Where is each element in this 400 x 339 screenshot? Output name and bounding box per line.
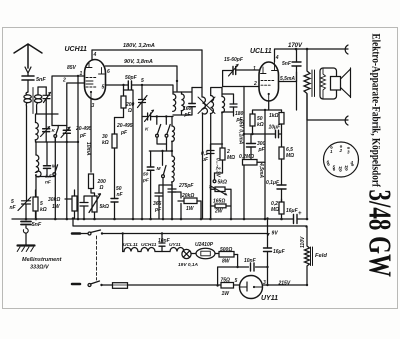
switch pole 2 [88, 284, 91, 287]
resistor 30kOhm 1W [72, 196, 77, 211]
svg-text:2W: 2W [214, 209, 224, 215]
band feed shelf [52, 125, 67, 127]
svg-text:75Ω: 75Ω [221, 278, 231, 284]
UCH11 pin labels [62, 52, 110, 109]
cap 5nF to ground [21, 222, 31, 225]
svg-text:10nF: 10nF [244, 258, 257, 264]
svg-text:pF: pF [142, 178, 150, 184]
UCH11 electrodes [86, 63, 105, 88]
svg-text:U2410P: U2410P [195, 242, 214, 248]
resistor 500 Ohm 8W [215, 253, 219, 255]
cap 365pF [155, 193, 163, 196]
svg-text:nF: nF [10, 205, 17, 211]
trimmer 5nF bottom-left [18, 197, 31, 211]
svg-text:16μF: 16μF [273, 249, 286, 255]
wire y114 [37, 113, 58, 115]
svg-text:Ω: Ω [99, 185, 104, 191]
svg-text:5kΩ: 5kΩ [100, 204, 110, 210]
svg-text:1: 1 [253, 66, 256, 72]
svg-text:50: 50 [143, 172, 149, 178]
svg-text:0,1μF: 0,1μF [266, 180, 280, 186]
cap 300pF [247, 144, 256, 148]
svg-text:1,5: 1,5 [45, 174, 52, 180]
svg-text:5: 5 [333, 165, 336, 170]
wire vertical right of UY11 [267, 219, 269, 286]
second row: wire y151 [149, 150, 172, 152]
svg-text:MΩ: MΩ [286, 153, 294, 159]
svg-text:50pF: 50pF [125, 75, 138, 81]
antenna [14, 44, 42, 68]
resistor 0.5MOhm [279, 147, 284, 159]
tube socket pinout [324, 142, 359, 177]
cap 10uF in horizontal wire [276, 130, 279, 138]
speaker cone [341, 68, 351, 98]
trimmer 15-60pF [233, 67, 236, 75]
svg-text:90V, 3,8mA: 90V, 3,8mA [124, 59, 153, 65]
svg-text:kΩ: kΩ [40, 207, 47, 213]
svg-text:Feld: Feld [315, 253, 327, 259]
capacitor 5nF antenna [22, 76, 34, 80]
cap 10nF heater [159, 243, 165, 246]
barretter U2410P [191, 253, 196, 255]
speaker terminal arc bottom [345, 116, 348, 125]
UCL11 pin labels [253, 55, 279, 87]
resistor 0.2MOhm right [279, 202, 284, 214]
variable cap C2b [63, 130, 70, 133]
cap 16uF lower [264, 248, 272, 252]
cap 180pF [230, 104, 237, 107]
output transformer primary [304, 49, 310, 120]
field coil Feld [305, 227, 310, 285]
svg-text:0,2MΩ: 0,2MΩ [239, 154, 254, 160]
mains plug pole 2 [72, 283, 80, 286]
svg-text:Elektro-Apparate-Fabrik, Köppe: Elektro-Apparate-Fabrik, Köppelsdorf [369, 34, 381, 188]
svg-text:8W: 8W [222, 259, 231, 265]
svg-text:pF: pF [120, 130, 128, 136]
switch gang link dashed [96, 236, 98, 280]
UCL11 pin wires [236, 49, 274, 110]
top line 180V [92, 49, 202, 51]
title text vertical [361, 34, 397, 278]
resistor 75 Ohm 1W [221, 283, 234, 289]
svg-text:kΩ: kΩ [257, 122, 264, 128]
main bus [12, 218, 307, 220]
svg-text:K: K [52, 128, 56, 134]
svg-text:333Ω/V: 333Ω/V [30, 265, 50, 271]
svg-text:MΩ: MΩ [227, 155, 235, 161]
svg-text:5nF: 5nF [32, 222, 42, 228]
bus junction dots [25, 218, 309, 221]
svg-text:20-495: 20-495 [116, 123, 133, 129]
svg-text:UY11: UY11 [169, 242, 181, 248]
cap 10nF lower [251, 263, 255, 271]
variable cap C2a [43, 129, 50, 132]
line 90V [106, 66, 178, 91]
svg-text:5: 5 [102, 85, 105, 91]
svg-text:+: + [298, 211, 302, 217]
svg-text:10μF: 10μF [269, 125, 282, 131]
tube UCL11 [259, 62, 279, 101]
svg-text:μF: μF [201, 157, 209, 163]
svg-text:5: 5 [235, 278, 238, 284]
svg-text:4,5mA: 4,5mA [258, 162, 264, 178]
trimmer C ant [43, 93, 51, 103]
svg-text:2: 2 [62, 78, 66, 84]
svg-text:4: 4 [350, 160, 354, 165]
switch K3 [165, 117, 167, 125]
svg-text:5nF: 5nF [282, 61, 292, 67]
speaker bottom wire [307, 119, 348, 121]
svg-text:1kΩ: 1kΩ [269, 113, 279, 119]
svg-text:85V: 85V [67, 65, 77, 71]
svg-text:30kΩ: 30kΩ [48, 197, 60, 203]
osc coil L6 [171, 156, 174, 182]
svg-text:10mA: 10mA [85, 142, 91, 156]
svg-text:UCL11: UCL11 [123, 242, 138, 248]
wire 4.5mA [264, 110, 266, 219]
oscillator shelf with variable cap [142, 116, 173, 118]
transformer core line [32, 88, 34, 114]
wire detector [221, 112, 223, 148]
resistor 165 Ohm 2W [215, 204, 226, 208]
dial lamp [182, 249, 191, 258]
wire antenna to coil [27, 73, 29, 92]
svg-text:10nF: 10nF [158, 238, 171, 244]
wire y144 [157, 137, 167, 151]
svg-text:Ω: Ω [127, 108, 132, 114]
UCH11 pin wires [52, 50, 128, 219]
IF transformer 1 winding B [181, 94, 184, 111]
svg-text:UCH11: UCH11 [65, 46, 88, 53]
IF transformer 2 winding B [210, 96, 213, 114]
resistor 50kOhm [250, 114, 255, 126]
-9V line from bus [73, 219, 307, 227]
pot 5kOhm [215, 187, 225, 192]
mains plug pole 1 [72, 232, 80, 235]
svg-text:0...-2,3V: 0...-2,3V [215, 158, 221, 178]
ground [18, 244, 35, 246]
potentiometer 5kOhm [92, 196, 97, 212]
svg-text:165Ω: 165Ω [213, 199, 225, 205]
svg-text:20kΩ: 20kΩ [181, 193, 194, 199]
resistor 30kOhm mid [112, 134, 117, 148]
speaker coil secondary [321, 68, 326, 99]
antenna coil L1 [26, 92, 28, 95]
cap 50pF lower [150, 151, 152, 219]
svg-text:nF: nF [117, 192, 124, 198]
svg-text:pF: pF [258, 147, 266, 153]
svg-text:UY11: UY11 [261, 295, 278, 302]
wire band row [36, 141, 79, 143]
svg-text:16μF: 16μF [286, 208, 299, 214]
resistor 1kOhm [279, 113, 284, 125]
speaker driver [331, 77, 341, 91]
resistor 200 Ohm [121, 96, 126, 108]
switch M1 with cap [44, 166, 51, 169]
heater feed line [102, 233, 268, 235]
wires left cluster verticals [55, 76, 78, 219]
mid cluster: trimmer on x142 [138, 96, 148, 108]
switch M2 [162, 151, 164, 165]
tube UY11 [240, 276, 263, 299]
IF transformer 2 winding A [202, 97, 207, 114]
svg-text:1W: 1W [52, 204, 61, 210]
svg-text:5,5mA: 5,5mA [280, 76, 295, 82]
resistor 200 Ohm cathode [89, 174, 94, 189]
svg-text:110V: 110V [300, 236, 306, 248]
svg-text:5: 5 [141, 78, 144, 84]
switch pole 1 [80, 233, 88, 235]
IF2 secondary coil [222, 97, 225, 113]
svg-text:215V: 215V [278, 281, 291, 287]
svg-text:3: 3 [347, 150, 350, 155]
svg-text:Meßinstrument: Meßinstrument [22, 257, 63, 263]
speaker terminal arc top [345, 45, 348, 54]
fuse [102, 284, 112, 286]
svg-text:4: 4 [93, 52, 97, 58]
svg-text:pF: pF [79, 133, 87, 139]
cap 0.1uF right [277, 185, 286, 189]
svg-text:UCL11: UCL11 [250, 48, 272, 55]
left rail [26, 106, 28, 201]
antenna coil L2 [37, 87, 39, 95]
svg-text:1W: 1W [222, 291, 231, 297]
resistor 20kOhm 1W [184, 198, 197, 204]
switch K2 [156, 117, 158, 125]
svg-text:6: 6 [107, 69, 110, 75]
svg-text:MΩ: MΩ [271, 207, 279, 213]
svg-text:5nF: 5nF [36, 77, 46, 83]
volume pot wiper wire [215, 173, 223, 180]
svg-text:500Ω: 500Ω [220, 247, 232, 253]
svg-text:275pF: 275pF [178, 183, 194, 189]
wire chain down to 10nF [218, 255, 268, 286]
band row 2 bottom wire [36, 177, 55, 220]
coil L4 [36, 155, 41, 177]
cap 50pF [128, 81, 131, 90]
tube UCH11 [85, 60, 106, 100]
215V wire [263, 284, 308, 286]
170V line [275, 48, 348, 50]
svg-text:3/48 GW: 3/48 GW [361, 190, 397, 278]
resistor 0.2MOhm horizontal [243, 160, 258, 166]
IF2 core cross [198, 97, 215, 114]
transformer core [312, 70, 315, 97]
heater chain [123, 248, 184, 252]
cap 0.1uF det [207, 151, 214, 154]
svg-text:- 9V: - 9V [269, 231, 279, 237]
svg-text:1W: 1W [186, 206, 195, 212]
cap IF1 [189, 104, 196, 107]
resistor 2MOhm [220, 148, 225, 160]
cap 275pF [168, 189, 176, 192]
svg-text:15-60pF: 15-60pF [224, 57, 244, 63]
svg-text:5kΩ: 5kΩ [218, 180, 228, 186]
svg-text:2: 2 [339, 148, 343, 153]
svg-text:6: 6 [327, 160, 330, 165]
IF transformer 1 winding A [173, 94, 176, 111]
UCL11 electrodes [261, 63, 278, 85]
loudspeaker basket [320, 68, 337, 99]
coil L3 [35, 123, 38, 140]
resistor 5kOhm [33, 197, 38, 211]
svg-text:1: 1 [330, 149, 333, 154]
svg-text:180V, 3,2mA: 180V, 3,2mA [123, 43, 155, 49]
svg-text:3: 3 [92, 103, 95, 109]
svg-text:K: K [145, 127, 149, 133]
osc coil L5 [172, 126, 175, 142]
svg-text:4: 4 [275, 55, 279, 61]
cap 5nF anode [292, 62, 301, 66]
wire coil to trimmer top [38, 86, 46, 88]
svg-text:19V 0,1A: 19V 0,1A [178, 262, 199, 268]
svg-text:pF: pF [154, 207, 162, 213]
svg-text:65V 0,1mA: 65V 0,1mA [238, 119, 244, 145]
cap 16uF electrolytic in bus [294, 215, 298, 224]
svg-text:kΩ: kΩ [102, 140, 109, 146]
